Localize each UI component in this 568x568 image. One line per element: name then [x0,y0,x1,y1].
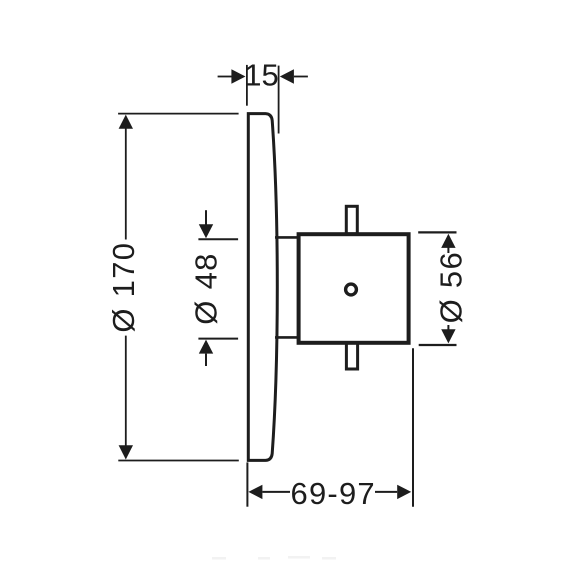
svg-text:69-97: 69-97 [291,476,376,511]
dim 69-97: left extension line [246,462,248,506]
dim 48: upper arrowhead (points down) [199,224,213,238]
dim 48: bottom extension line [198,338,238,340]
dim 15: right extension line [278,66,280,134]
dim 69-97: left arrowhead [248,485,262,499]
dim 170: down arrowhead [119,445,133,459]
handle bottom tab [346,342,357,369]
dim 48: lower arrowhead (points up) [199,340,213,354]
dim 15: right arrow tail [294,76,308,78]
handle top tab [346,206,357,234]
dim 56: top extension line [418,231,456,233]
dim 15: left extension line [246,65,248,106]
svg-text:Ø 56: Ø 56 [434,251,469,323]
dim 15: right arrowhead [280,69,294,83]
dim 170: bottom extension line [118,460,239,462]
dim 56: upper line segment [447,247,449,253]
dim 15: left arrow tail [218,76,232,78]
dim 69-97: right line segment [375,491,397,493]
dim 69-97: right extension line [412,348,414,506]
dim 170: dimension line lower segment [125,336,127,447]
dim 15: left arrowhead [231,69,245,83]
dim 48: upper arrow tail [205,210,207,225]
dim 48: top extension line [198,238,238,240]
handle body box [299,234,409,343]
faint cropped watermark at bottom edge [212,556,336,560]
dim 69-97: right arrowhead [397,485,411,499]
dim 170: top extension line [118,113,239,115]
dim 69-97: left line segment [262,491,290,493]
handle center pin circle [346,284,357,295]
dim 56: lower line segment [447,325,449,330]
dim 170: up arrowhead [119,115,133,129]
svg-text:15: 15 [244,58,278,93]
sleeve bottom line [275,336,300,339]
svg-text:Ø 170: Ø 170 [106,242,141,333]
dim 56: bottom extension line [419,344,457,346]
dim 56: up arrowhead [441,234,455,248]
escutcheon plate (side profile) [248,114,277,461]
dim 56: down arrowhead [441,329,455,343]
dim 48: lower arrow tail [205,354,207,366]
sleeve top line [275,236,300,239]
dim 170: dimension line upper segment [125,127,127,240]
svg-text:Ø 48: Ø 48 [189,252,224,324]
